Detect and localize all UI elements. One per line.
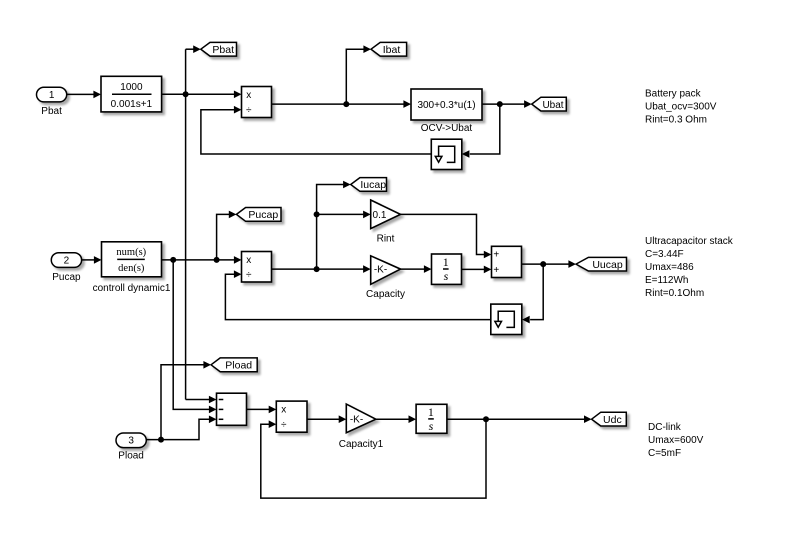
svg-text:C=3.44F: C=3.44F	[645, 249, 684, 260]
svg-text:DC-link: DC-link	[648, 422, 682, 433]
junction dot Iucap net lower	[314, 266, 320, 272]
sum block S2 (+ +)	[492, 246, 522, 277]
svg-text:1: 1	[428, 405, 434, 419]
goto tag Pucap	[236, 208, 281, 222]
svg-text:controll dynamic1: controll dynamic1	[93, 283, 171, 294]
wire Pbat net into sum3 input 1	[186, 399, 210, 401]
inport 2 Pucap	[51, 253, 81, 268]
junction dot Ubat net	[497, 101, 503, 107]
wire OCV out to goto Ubat	[482, 103, 524, 105]
svg-text:3: 3	[128, 436, 134, 447]
svg-text:1: 1	[49, 90, 55, 101]
svg-text:0.1: 0.1	[373, 210, 387, 221]
fcn block OCV->Ubat (300+0.3*u(1))	[411, 89, 482, 120]
wire divide U2 out to gain Capacity	[272, 268, 364, 270]
goto tag Pbat	[201, 42, 237, 56]
svg-text:C=5mF: C=5mF	[648, 448, 681, 459]
svg-text:-K-: -K-	[350, 415, 363, 426]
svg-text:Ultracapacitor stack: Ultracapacitor stack	[645, 236, 734, 247]
svg-text:s: s	[429, 419, 434, 433]
svg-text:Rint=0.3 Ohm: Rint=0.3 Ohm	[645, 115, 707, 126]
svg-text:den(s): den(s)	[118, 263, 145, 274]
goto tag Ubat	[532, 97, 567, 111]
svg-text:2: 2	[64, 256, 70, 267]
wire TF2 out to divide U2	[162, 259, 235, 261]
svg-text:OCV->Ubat: OCV->Ubat	[421, 123, 473, 134]
integrator block I2 (1/s)	[432, 254, 462, 284]
svg-text:Umax=600V: Umax=600V	[648, 435, 704, 446]
svg-text:x: x	[281, 405, 286, 416]
wire TF1 to divide U1	[162, 93, 235, 95]
wire inport1 to TF1	[67, 93, 95, 95]
junction dot Udc net	[483, 416, 489, 422]
wire branch to gain Rint	[317, 213, 364, 215]
junction dot Uucap net	[540, 261, 546, 267]
wire to goto Pbat	[186, 48, 194, 50]
svg-text:x: x	[246, 90, 251, 101]
wire up to goto Ibat	[346, 49, 363, 104]
wire inport3 to corner	[146, 419, 209, 439]
svg-text:num(s): num(s)	[116, 247, 146, 258]
svg-text:-K-: -K-	[374, 265, 387, 276]
svg-text:Pbat: Pbat	[212, 44, 234, 56]
svg-text:300+0.3*u(1): 300+0.3*u(1)	[417, 100, 475, 111]
junction dot Rint branch	[314, 211, 320, 217]
sum block S3 (- - -)	[217, 393, 247, 425]
svg-text:Pucap: Pucap	[248, 209, 278, 221]
goto tag Ibat	[371, 42, 407, 56]
wire Pload net up to goto Pload	[161, 365, 204, 440]
memory block M2 (flipped)	[491, 304, 522, 334]
svg-text:Iucap: Iucap	[360, 179, 386, 191]
svg-text:Pucap: Pucap	[52, 272, 81, 283]
wire Rint out to sum2 input 1	[401, 214, 485, 254]
junction dot Pucap goto net	[214, 257, 220, 263]
transfer function block controll dynamic1 num(s)/den(s)	[102, 242, 162, 277]
goto tag Iucap	[351, 178, 387, 192]
junction dot Pucap down net	[170, 257, 176, 263]
svg-text:Capacity: Capacity	[366, 289, 405, 300]
svg-text:Capacity1: Capacity1	[339, 439, 384, 450]
inport 3 Pload	[116, 433, 146, 448]
svg-text:s: s	[444, 269, 449, 283]
integrator block I3 (1/s)	[416, 404, 447, 433]
svg-text:Umax=486: Umax=486	[645, 262, 694, 273]
svg-text:Battery pack: Battery pack	[645, 89, 702, 100]
wire memory M2 out feedback to divide U2 second input	[225, 274, 490, 319]
inport 1 Pbat	[37, 87, 67, 102]
junction dot on Pbat net	[183, 91, 189, 97]
gain Rint (0.1)	[371, 200, 401, 229]
svg-text:Rint: Rint	[377, 234, 395, 245]
wire divide U1 out to OCV block	[272, 103, 404, 105]
wire inport2 to TF2	[82, 259, 95, 261]
svg-text:Ubat: Ubat	[542, 100, 563, 111]
wire integrator I3 out to goto Udc	[447, 418, 585, 420]
wire integrator I2 out to sum2 input 2	[462, 268, 485, 270]
wire memory M1 out feedback to divide U1 second input	[201, 110, 431, 154]
goto tag Uucap	[576, 257, 627, 271]
svg-text:Rint=0.1Ohm: Rint=0.1Ohm	[645, 288, 704, 299]
wire Ubat net down into memory M1 (right input)	[470, 104, 500, 154]
svg-text:÷: ÷	[246, 269, 252, 280]
gain Capacity1 (-K-)	[346, 404, 376, 433]
wire Udc net feedback to divide U3 second input	[261, 419, 486, 498]
svg-text:E=112Wh: E=112Wh	[645, 275, 688, 286]
svg-text:1000: 1000	[120, 82, 143, 93]
memory block M1 (flipped)	[431, 139, 462, 169]
wire sum2 out to goto Uucap	[522, 263, 569, 265]
divide block U1 (x over divide)	[242, 87, 272, 118]
svg-text:Ubat_ocv=300V: Ubat_ocv=300V	[645, 102, 717, 113]
svg-text:Udc: Udc	[603, 414, 622, 426]
svg-text:÷: ÷	[246, 105, 252, 116]
svg-text:Uucap: Uucap	[592, 259, 623, 271]
junction dot Ibat net	[343, 101, 349, 107]
svg-text:+: +	[493, 265, 499, 276]
wire Iucap net vertical	[317, 185, 344, 270]
svg-text:÷: ÷	[281, 419, 287, 430]
wire Capacity out to integrator I2	[401, 268, 425, 270]
wire sum3 out to divide U3	[247, 408, 270, 410]
wire up to goto Pucap	[217, 214, 230, 260]
junction dot Pload net	[158, 437, 164, 443]
svg-text:Pload: Pload	[225, 360, 252, 372]
goto tag Pload	[211, 358, 257, 372]
divide block U2	[242, 252, 272, 283]
svg-text:0.001s+1: 0.001s+1	[111, 99, 153, 110]
wire Pucap net down to sum3 input 2	[173, 260, 209, 410]
gain Capacity (-K-)	[371, 256, 401, 284]
svg-text:Pbat: Pbat	[41, 106, 62, 117]
svg-text:+: +	[493, 250, 499, 261]
wire Uucap net down into memory M2	[530, 264, 543, 320]
svg-text:1: 1	[443, 255, 449, 269]
goto tag Udc	[592, 412, 627, 426]
svg-text:x: x	[246, 255, 251, 266]
svg-text:Pload: Pload	[118, 451, 144, 462]
wire divide U3 out to gain Capacity1	[307, 418, 339, 420]
wire Pbat net vertical (to Pbat goto and down to sum3)	[185, 49, 187, 399]
divide block U3	[276, 401, 307, 432]
wire Capacity1 out to integrator I3	[376, 418, 409, 420]
svg-text:Ibat: Ibat	[383, 44, 401, 56]
transfer function block 1000/(0.001s+1)	[101, 76, 162, 112]
